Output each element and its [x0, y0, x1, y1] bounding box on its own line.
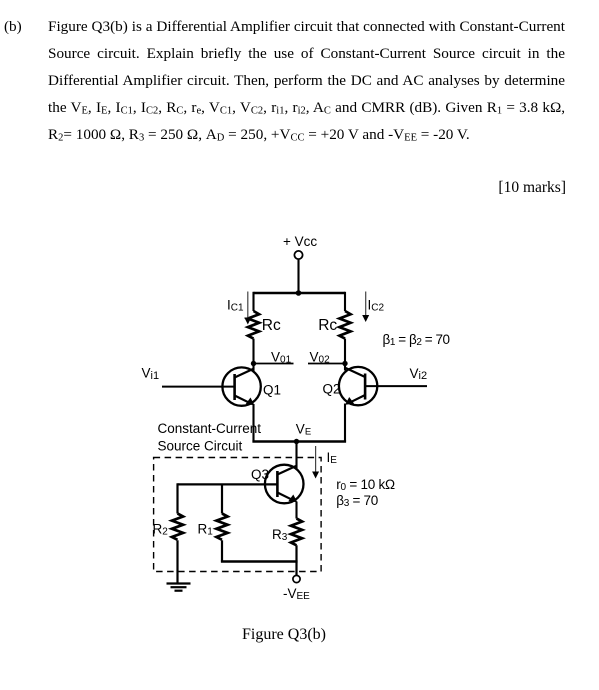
dashed box constant-current source — [154, 458, 322, 572]
svg-text:Q1: Q1 — [263, 383, 281, 398]
label R3 — [272, 527, 288, 543]
wire R2 to ground — [176, 540, 178, 583]
terminal -VEE — [293, 575, 300, 582]
label IE — [327, 450, 338, 466]
wire right drop to Rc2 — [344, 292, 346, 311]
wire top rail — [254, 292, 346, 294]
label -VEE — [283, 586, 310, 602]
label IC2 — [368, 298, 385, 314]
label Q1 — [263, 383, 281, 398]
question paragraph — [48, 13, 565, 148]
svg-text:β3 = 70: β3 = 70 — [336, 493, 378, 509]
transistor Q2 — [339, 367, 377, 405]
resistor Rc1 — [248, 311, 259, 339]
wire R2 top lead — [176, 483, 178, 513]
wire Vcc vertical — [297, 259, 299, 293]
current arrow IE — [312, 446, 319, 479]
junction node V02 — [342, 361, 347, 366]
svg-text:Vi1: Vi1 — [142, 366, 160, 382]
svg-text:IE: IE — [327, 450, 338, 466]
wire Q1 emitter drop — [252, 404, 254, 442]
svg-text:R1: R1 — [198, 522, 214, 538]
wire Q2 collector — [344, 364, 346, 371]
label Rc1 value — [262, 317, 281, 334]
label V02 — [310, 350, 331, 366]
svg-text:R3: R3 — [272, 527, 288, 543]
marks — [366, 179, 566, 197]
svg-text:Source Circuit: Source Circuit — [158, 439, 243, 454]
label beta3 value — [336, 493, 378, 509]
wire V01 stub — [254, 363, 294, 365]
label V01 — [271, 350, 292, 366]
ground — [167, 584, 191, 591]
wire Q1 collector — [252, 364, 254, 372]
wire R1 bottom lead — [221, 540, 223, 561]
svg-text:Q2: Q2 — [323, 382, 341, 397]
label Source Circuit — [158, 439, 243, 454]
junction node VE — [294, 439, 299, 444]
label Vi1 — [142, 366, 160, 382]
wire Q3 emitter to R3 — [295, 502, 297, 519]
svg-text:Constant-Current: Constant-Current — [158, 421, 262, 436]
label IC1 — [227, 298, 244, 314]
svg-text:Rc: Rc — [262, 317, 281, 334]
svg-text:Vi2: Vi2 — [410, 366, 428, 382]
label Vi2 — [410, 366, 428, 382]
label R1 — [198, 522, 214, 538]
wire V02 stub — [308, 363, 345, 365]
label Rc2 value — [318, 317, 337, 334]
node +Vcc label — [283, 234, 317, 249]
svg-text:VE: VE — [296, 422, 311, 438]
resistor Rc2 — [339, 311, 350, 339]
resistor R2 — [172, 514, 183, 540]
wire R1 top lead — [221, 484, 223, 513]
svg-text:V01: V01 — [271, 350, 292, 366]
current arrow IC1 — [244, 292, 251, 325]
svg-text:Q3: Q3 — [251, 467, 269, 482]
junction Vcc rail — [296, 290, 302, 296]
junction node V01 — [251, 361, 256, 366]
question label (b) — [4, 13, 22, 40]
current arrow IC2 — [362, 292, 369, 323]
resistor R1 — [216, 514, 227, 540]
svg-text:+ Vcc: + Vcc — [283, 234, 317, 249]
svg-text:-VEE: -VEE — [283, 586, 310, 602]
wire Rc2 to V02 — [344, 339, 346, 364]
svg-text:R2: R2 — [153, 522, 169, 538]
wire to -VEE terminal — [295, 562, 297, 576]
wire Rc1 to V01 — [252, 339, 254, 364]
wire R3 bottom lead — [295, 545, 297, 561]
label Constant-Current — [158, 421, 262, 436]
label Q3 — [251, 467, 269, 482]
wire Q2 emitter drop — [344, 404, 346, 442]
wire VE rail — [252, 440, 346, 442]
svg-text:β1 = β2 = 70: β1 = β2 = 70 — [383, 332, 450, 348]
transistor Q3 — [265, 465, 304, 504]
svg-text:Rc: Rc — [318, 317, 337, 334]
wire left drop to Rc1 — [252, 292, 254, 311]
svg-text:IC1: IC1 — [227, 298, 244, 314]
resistor R3 — [291, 519, 302, 546]
wire Vi1 input — [162, 386, 235, 388]
svg-text:V02: V02 — [310, 350, 331, 366]
figure caption — [242, 626, 326, 644]
terminal +Vcc — [294, 251, 302, 259]
wire VE to Q3 collector — [295, 442, 297, 470]
wire Vi2 input — [365, 385, 427, 387]
label Q2 — [323, 382, 341, 397]
wire Q3 base — [178, 483, 278, 485]
label R2 — [153, 522, 169, 538]
svg-text:IC2: IC2 — [368, 298, 385, 314]
label r0 value — [336, 477, 395, 493]
label VE — [296, 422, 311, 438]
svg-text:r0 = 10 kΩ: r0 = 10 kΩ — [336, 477, 395, 493]
wire bottom rail — [221, 560, 298, 562]
label beta1 beta2 — [383, 332, 450, 348]
transistor Q1 — [222, 367, 260, 405]
